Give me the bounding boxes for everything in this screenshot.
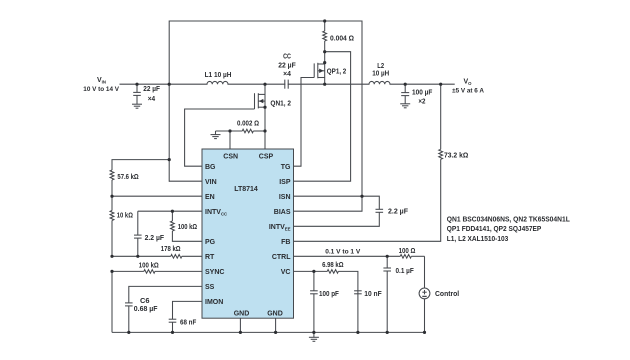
svg-text:Control: Control	[435, 291, 459, 298]
wire QP1 gate to TG	[294, 78, 315, 167]
capacitor 2.2uF bias	[294, 196, 384, 226]
svg-text:L2: L2	[377, 63, 384, 70]
capacitor 100pF vc	[310, 271, 318, 332]
svg-text:2.2 µF: 2.2 µF	[388, 208, 409, 215]
wire INTVcc pin	[138, 210, 202, 212]
wire GND pin 1	[239, 318, 241, 332]
svg-text:0.002 Ω: 0.002 Ω	[237, 120, 259, 127]
svg-text:SYNC: SYNC	[205, 269, 224, 276]
svg-text:L1 10 µH: L1 10 µH	[205, 72, 232, 79]
inductor L1	[207, 81, 228, 84]
wire input rail	[120, 83, 207, 85]
resistor 178k RT	[112, 254, 202, 258]
wire ISN pin	[294, 195, 363, 197]
pin labels	[205, 154, 291, 318]
capacitor 0.1uF ctrl	[383, 256, 391, 332]
svg-text:ISP: ISP	[279, 179, 291, 186]
svg-text:QN1 BSC034N06NS, QN2 TK65S04N1: QN1 BSC034N06NS, QN2 TK65S04N1L	[447, 217, 571, 224]
svg-text:CSN: CSN	[223, 154, 238, 161]
svg-text:×4: ×4	[148, 96, 155, 103]
wire output rail	[288, 83, 369, 85]
source Control	[419, 256, 430, 332]
svg-text:10 nF: 10 nF	[364, 291, 382, 298]
svg-text:VIN: VIN	[97, 77, 106, 85]
capacitor 100uF x2 output	[401, 84, 409, 104]
svg-text:PG: PG	[205, 239, 216, 246]
svg-text:0.1 V to 1 V: 0.1 V to 1 V	[325, 248, 361, 255]
capacitor CC 22uF x4 series	[285, 80, 288, 89]
resistor 10k	[110, 196, 114, 256]
svg-text:0.68 µF: 0.68 µF	[134, 306, 158, 313]
svg-text:57.6 kΩ: 57.6 kΩ	[117, 174, 139, 181]
svg-text:QP1, 2: QP1, 2	[327, 69, 347, 76]
svg-text:VO: VO	[464, 79, 473, 87]
capacitor 22uF x4 input	[133, 84, 141, 104]
resistor 0.004 ohm	[323, 21, 327, 52]
svg-text:68 nF: 68 nF	[180, 320, 197, 327]
svg-text:QN1, 2: QN1, 2	[270, 101, 291, 108]
resistor 6.98k	[327, 270, 358, 333]
resistor 73.2k feedback	[294, 84, 443, 241]
resistor 100k SYNC	[112, 270, 202, 274]
svg-text:100 pF: 100 pF	[319, 291, 340, 298]
svg-text:SS: SS	[205, 284, 215, 291]
wire CTRL pin	[294, 255, 401, 257]
svg-text:6.98 kΩ: 6.98 kΩ	[322, 262, 344, 269]
svg-text:10 kΩ: 10 kΩ	[117, 213, 133, 220]
svg-text:ISN: ISN	[279, 194, 291, 201]
transistor QN1,2	[255, 84, 266, 131]
node Vin label	[83, 77, 119, 93]
svg-text:22 µF: 22 µF	[143, 86, 160, 93]
capacitor 10nF	[354, 291, 362, 294]
svg-text:2.2 µF: 2.2 µF	[145, 235, 165, 242]
svg-text:73.2 kΩ: 73.2 kΩ	[444, 152, 469, 159]
svg-text:0.004 Ω: 0.004 Ω	[330, 36, 354, 43]
svg-text:TG: TG	[281, 164, 291, 171]
inductor L2	[369, 81, 390, 84]
wire ground rail	[112, 331, 425, 333]
wire CSP	[264, 131, 266, 149]
svg-text:RT: RT	[205, 254, 215, 261]
wire EN pin	[112, 195, 202, 197]
resistor 0.002 ohm	[216, 129, 266, 133]
capacitor 2.2uF intvcc	[134, 211, 142, 256]
svg-text:CSP: CSP	[259, 154, 274, 161]
ground 0.002	[211, 131, 221, 139]
svg-text:100 kΩ: 100 kΩ	[178, 224, 198, 231]
svg-text:GND: GND	[234, 311, 250, 318]
wire VC pin	[294, 270, 328, 272]
capacitor C6 0.68uF	[125, 286, 202, 332]
svg-text:VC: VC	[281, 269, 291, 276]
wire BIAS pin	[294, 196, 363, 211]
wire CSN	[229, 131, 231, 149]
wire QN1 gate to BG	[185, 109, 255, 166]
svg-text:LT8714: LT8714	[234, 186, 258, 193]
svg-text:FB: FB	[281, 239, 290, 246]
wire left rail down	[111, 271, 113, 332]
svg-text:L1, L2 XAL1510-103: L1, L2 XAL1510-103	[447, 236, 509, 243]
wire GND pin 2	[275, 318, 277, 332]
ground main rail	[309, 332, 319, 341]
note text block	[447, 217, 571, 243]
ground input cap	[132, 104, 142, 108]
resistor 100 ohm	[400, 254, 424, 258]
svg-text:10 V to 14 V: 10 V to 14 V	[83, 86, 119, 93]
svg-text:22 µF: 22 µF	[278, 63, 296, 70]
svg-text:×4: ×4	[283, 71, 291, 78]
svg-text:100 µF: 100 µF	[412, 89, 433, 96]
svg-text:EN: EN	[205, 194, 215, 201]
svg-text:CC: CC	[283, 53, 291, 60]
IC U1 LT8714	[202, 149, 294, 318]
svg-text:BIAS: BIAS	[274, 209, 291, 216]
svg-text:C6: C6	[140, 298, 150, 305]
svg-text:×2: ×2	[418, 99, 425, 106]
svg-text:CTRL: CTRL	[272, 254, 291, 261]
svg-text:178 kΩ: 178 kΩ	[161, 246, 181, 253]
svg-text:0.1 µF: 0.1 µF	[396, 268, 415, 275]
wire VIN pin	[169, 180, 202, 182]
svg-text:BG: BG	[205, 164, 216, 171]
svg-text:QP1 FDD4141, QP2 SQJ457EP: QP1 FDD4141, QP2 SQJ457EP	[447, 226, 542, 233]
capacitor 68nF imon	[169, 301, 202, 332]
svg-text:100 Ω: 100 Ω	[399, 248, 416, 255]
node Vo label	[452, 79, 484, 95]
svg-text:IMON: IMON	[205, 299, 223, 306]
wire top loop	[169, 21, 362, 196]
resistor 57.6k	[110, 160, 169, 197]
wire ISP sense	[294, 52, 351, 182]
svg-text:VIN: VIN	[205, 179, 217, 186]
transistor QP1,2	[314, 52, 325, 84]
svg-text:±5 V at 6 A: ±5 V at 6 A	[452, 88, 484, 95]
transistor QP1 arrow	[319, 69, 323, 73]
resistor 100k intvcc-pg	[171, 211, 203, 241]
transistor QN1 arrow	[259, 99, 263, 103]
svg-text:GND: GND	[267, 311, 283, 318]
svg-text:10 µH: 10 µH	[372, 71, 389, 78]
ground output cap	[400, 104, 410, 108]
svg-text:100 kΩ: 100 kΩ	[139, 262, 159, 269]
